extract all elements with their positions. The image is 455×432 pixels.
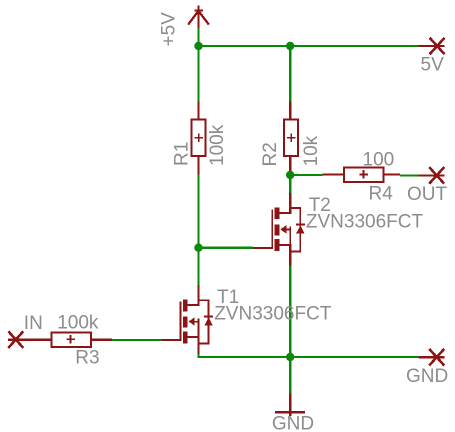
svg-text:+5V: +5V — [159, 12, 180, 47]
junction at T1 drain / T2 gate — [194, 244, 202, 252]
wire 5V rail to R1 — [197, 46, 199, 102]
svg-text:OUT: OUT — [407, 184, 448, 205]
resistor R1 — [191, 102, 205, 175]
svg-text:100k: 100k — [207, 124, 228, 166]
pin OUT — [419, 167, 445, 184]
ground symbol GND — [275, 394, 305, 417]
wire +5V to rail — [197, 28, 199, 46]
svg-text:ZVN3306FCT: ZVN3306FCT — [214, 303, 332, 324]
wire 5V rail to R2 — [289, 46, 291, 102]
svg-text:100: 100 — [363, 149, 395, 170]
wire R3 to T1 gate — [112, 339, 162, 341]
junction at R2 / R4 / T2 drain — [286, 171, 294, 179]
svg-text:5V: 5V — [421, 55, 445, 76]
svg-text:GND: GND — [406, 366, 448, 387]
svg-text:R4: R4 — [369, 184, 394, 205]
wire T2 source to GND rail — [289, 266, 291, 358]
svg-text:IN: IN — [24, 313, 43, 334]
junction at +5V / R1 — [194, 42, 202, 50]
svg-text:R3: R3 — [75, 347, 99, 368]
svg-text:ZVN3306FCT: ZVN3306FCT — [306, 211, 424, 232]
wire 5V rail — [199, 45, 419, 47]
pin IN — [8, 331, 30, 348]
svg-text:10k: 10k — [301, 135, 322, 166]
wire R2 to R4 — [290, 174, 322, 176]
pin GND — [419, 349, 445, 366]
svg-text:100k: 100k — [57, 312, 99, 333]
transistor T1 — [162, 285, 214, 358]
wire junction to T2 drain — [289, 175, 291, 193]
wire R1 bottom to T1 drain — [197, 175, 199, 286]
resistor R4 — [323, 168, 401, 182]
junction at GND rail — [286, 353, 294, 361]
svg-text:R2: R2 — [260, 142, 281, 166]
wire junction to ground symbol — [289, 357, 291, 394]
supply symbol +5V — [188, 6, 209, 29]
svg-text:GND: GND — [272, 414, 314, 432]
svg-text:R1: R1 — [172, 142, 193, 166]
transistor T2 — [253, 193, 305, 266]
wire to T2 gate — [199, 247, 254, 249]
resistor R3 — [30, 332, 112, 346]
pin 5V — [419, 38, 445, 55]
resistor R2 — [284, 102, 298, 176]
junction at R2 top — [286, 42, 294, 50]
wire R4 to OUT pin — [400, 174, 418, 176]
wire GND rail — [199, 354, 419, 357]
